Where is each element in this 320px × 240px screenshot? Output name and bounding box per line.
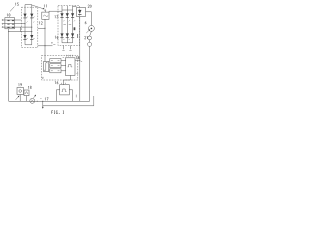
ticks above pulse unit [67, 55, 73, 57]
junction phase C [31, 27, 32, 28]
wire box20 down [79, 17, 81, 102]
wire pulse out right [75, 59, 80, 61]
input ticks [62, 83, 66, 84]
tick marks below 16 [53, 44, 55, 46]
field bridge 16 dashed box [58, 6, 80, 46]
thyristor V4 [30, 35, 33, 40]
wire b to pulse unit [61, 65, 66, 67]
thyristor V6 [66, 13, 69, 18]
label 11 [43, 5, 46, 8]
pulse glyph [68, 64, 73, 67]
node L1 terminal [2, 19, 3, 20]
label 16 [54, 36, 57, 39]
figure caption FIG. 1 [52, 111, 64, 114]
wire c to pulse unit [61, 70, 66, 72]
wire left dc rail [8, 29, 10, 102]
stub ticks [62, 49, 71, 51]
bridge2 top bus [62, 9, 73, 11]
reference arrowhead [42, 107, 44, 109]
thyristor V9 [66, 33, 69, 38]
wire pulse unit down [64, 75, 71, 84]
label 6 [85, 21, 86, 24]
junction bottom [42, 101, 43, 102]
module labels [51, 61, 59, 71]
wire bridge1 output [38, 27, 45, 29]
wire phase A [3, 19, 21, 21]
thyristor V7 [71, 13, 74, 18]
Rw label ticks [42, 77, 44, 78]
coil circle 1 [88, 36, 92, 40]
shaper box 17b [60, 85, 70, 95]
summing arrow [34, 95, 36, 98]
wire dc tap [9, 31, 32, 33]
label 14 [75, 56, 78, 59]
thyristor V2 gate [33, 17, 34, 18]
motor arrow [86, 30, 89, 33]
bridge1 top bus [25, 4, 32, 6]
terminal 11 [45, 10, 46, 11]
label 17 [44, 98, 47, 101]
label 13 [54, 15, 57, 18]
leader 16 [57, 38, 58, 41]
wire phase C [3, 26, 32, 28]
bridge2 leg c [72, 6, 74, 43]
integrator box [44, 62, 49, 72]
gate stub a [63, 46, 65, 50]
label 12 [38, 22, 41, 25]
pot circle [19, 90, 22, 93]
bridge1 riser left [24, 5, 26, 45]
module box a [50, 59, 61, 63]
reference drop [42, 101, 44, 107]
bridge1 riser right [31, 5, 33, 45]
thyristor V10 [71, 33, 74, 38]
wire a to pulse unit [61, 60, 66, 62]
wire shaper right down [69, 90, 72, 102]
node L2 terminal [2, 23, 3, 24]
thyristor V8 [60, 33, 63, 38]
wire bridge2 to box20 [73, 6, 77, 8]
wire shaper left down [56, 90, 59, 102]
junction lower output [45, 45, 46, 46]
tick right of output [81, 60, 82, 62]
label ticks right of box14 [76, 73, 78, 75]
leader arrow terminal 11 [32, 5, 43, 9]
label 21 [85, 36, 87, 39]
wire drop x20 [19, 27, 21, 32]
coil circle 2 [88, 42, 92, 46]
transformer windings col2 [12, 20, 14, 28]
thyristor V1 gate [27, 17, 28, 18]
module box c [50, 69, 61, 73]
label 10 [6, 14, 9, 17]
wire box20 to motor [86, 12, 92, 26]
label ticks 3a [51, 43, 53, 44]
wire terminal corner [48, 10, 50, 13]
glyph in 18 [25, 92, 28, 94]
junction circle output [37, 101, 38, 102]
snubber mark lower [77, 34, 79, 38]
tiny label above module a [63, 56, 65, 58]
motor armature [88, 25, 94, 31]
integral sign [44, 62, 47, 70]
rectifier bridge 13 dashed box [21, 7, 37, 47]
sine wave [43, 15, 48, 17]
sync box 12 [42, 12, 49, 19]
junction dc tap [8, 30, 9, 33]
label 16b [54, 81, 57, 84]
label 20 [88, 5, 90, 8]
junction bridge1 output [45, 28, 46, 29]
pot arrow [16, 96, 19, 100]
pulse unit box 14 [65, 58, 75, 76]
bridge2 gate marks lower [63, 39, 69, 40]
transformer 10 box [5, 18, 15, 29]
thyristor V2 [30, 14, 33, 19]
label 19 [17, 83, 20, 86]
thyristor box 20 [77, 8, 86, 17]
thyristor V1 [23, 14, 26, 19]
stub near corner [75, 95, 77, 98]
bottom rail A [9, 100, 90, 102]
pulse glyph 2 [62, 89, 67, 92]
bridge2 gate marks [63, 20, 75, 24]
snubber mark upper [74, 27, 76, 30]
right return riser [93, 96, 95, 106]
junction right wire [79, 60, 80, 61]
leader 15 [10, 7, 14, 12]
thyristor V3 [23, 35, 26, 40]
wire box12 to bridge2 [49, 10, 62, 12]
thyristor V4 gate [33, 38, 34, 39]
bridge2 leg a [61, 6, 63, 43]
node L3 terminal [2, 27, 3, 28]
thyristor V11 [78, 10, 81, 15]
control unit dashed box [42, 56, 78, 81]
pot lead [19, 95, 21, 102]
wire bridge1 lower output [38, 45, 53, 47]
bridge1 bottom bus [25, 44, 32, 46]
limiter box 18 [24, 90, 29, 96]
module box b [50, 64, 61, 68]
gate stub b [70, 46, 72, 50]
wire motor to coils [90, 31, 92, 36]
label 18 [27, 86, 30, 89]
wire phase B [3, 23, 25, 25]
bridge2 leg b [66, 6, 68, 43]
wire between coils [89, 40, 91, 42]
bottom rail B [43, 105, 94, 107]
pot box 19 [17, 88, 24, 95]
junction dc tap col2 [31, 30, 32, 33]
summing cross [31, 100, 33, 102]
wire coils down [89, 46, 91, 101]
transformer windings col1 [7, 20, 9, 28]
thyristor V3 gate [27, 38, 28, 39]
bridge2 bottom bus [62, 42, 73, 44]
wire terminal to box12 [44, 11, 46, 12]
thyristor V5 [60, 13, 63, 18]
junction phase B [25, 23, 26, 24]
label 15 [14, 3, 17, 6]
wire sync down [44, 19, 46, 61]
bridge1 gate ticks [27, 22, 35, 23]
tiny tick above junction [40, 98, 41, 100]
limiter lead [26, 96, 28, 102]
summing circle [30, 98, 35, 103]
